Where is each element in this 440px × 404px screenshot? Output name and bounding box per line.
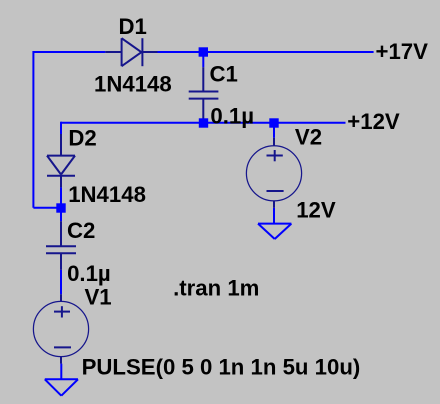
wire top rail left segment (33, 51, 105, 53)
junction node mid rail / C1 (199, 118, 208, 127)
wire mid rail +12V (61, 122, 346, 124)
ground under V2 (258, 224, 291, 239)
wire C2 bottom to V1 (60, 270, 62, 295)
svg-text:0.1µ: 0.1µ (210, 103, 254, 128)
wire D2 anode stub (60, 122, 62, 134)
svg-text:+17V: +17V (376, 39, 429, 64)
ground under V1 (45, 379, 78, 395)
wire D2 cathode to C2 (60, 187, 62, 221)
diode D1 (105, 38, 157, 66)
svg-text:PULSE(0 5 0 1n 1n 5u 10u): PULSE(0 5 0 1n 1n 5u 10u) (82, 355, 361, 380)
svg-text:+12V: +12V (347, 109, 400, 134)
svg-text:D2: D2 (68, 126, 96, 151)
svg-text:1N4148: 1N4148 (68, 182, 146, 207)
svg-text:12V: 12V (296, 198, 336, 223)
voltage source V2 (246, 138, 301, 208)
svg-text:C2: C2 (67, 218, 95, 243)
wire V2 top stub (273, 123, 275, 138)
svg-text:1N4148: 1N4148 (94, 72, 172, 97)
voltage source V1 (33, 294, 88, 363)
svg-text:D1: D1 (119, 14, 147, 39)
svg-text:V1: V1 (85, 285, 112, 310)
svg-text:.tran 1m: .tran 1m (173, 276, 259, 301)
junction node left / D2-C2 (56, 203, 65, 212)
diode D2 (47, 134, 75, 187)
svg-text:C1: C1 (210, 62, 238, 87)
junction node top rail / C1 (199, 47, 208, 56)
wire left vertical (32, 51, 34, 208)
wire left bottom horizontal to node (33, 207, 61, 209)
svg-text:0.1µ: 0.1µ (67, 261, 111, 286)
wire top rail right segment to +17V (158, 51, 374, 53)
junction node mid rail / V2 (269, 118, 278, 127)
wire V1 bottom to ground (60, 364, 62, 380)
capacitor C1 (189, 67, 219, 120)
svg-text:V2: V2 (295, 125, 322, 150)
wire V2 bottom to ground (273, 208, 275, 224)
capacitor C2 (46, 221, 76, 269)
wire C1 top stub (202, 52, 204, 67)
